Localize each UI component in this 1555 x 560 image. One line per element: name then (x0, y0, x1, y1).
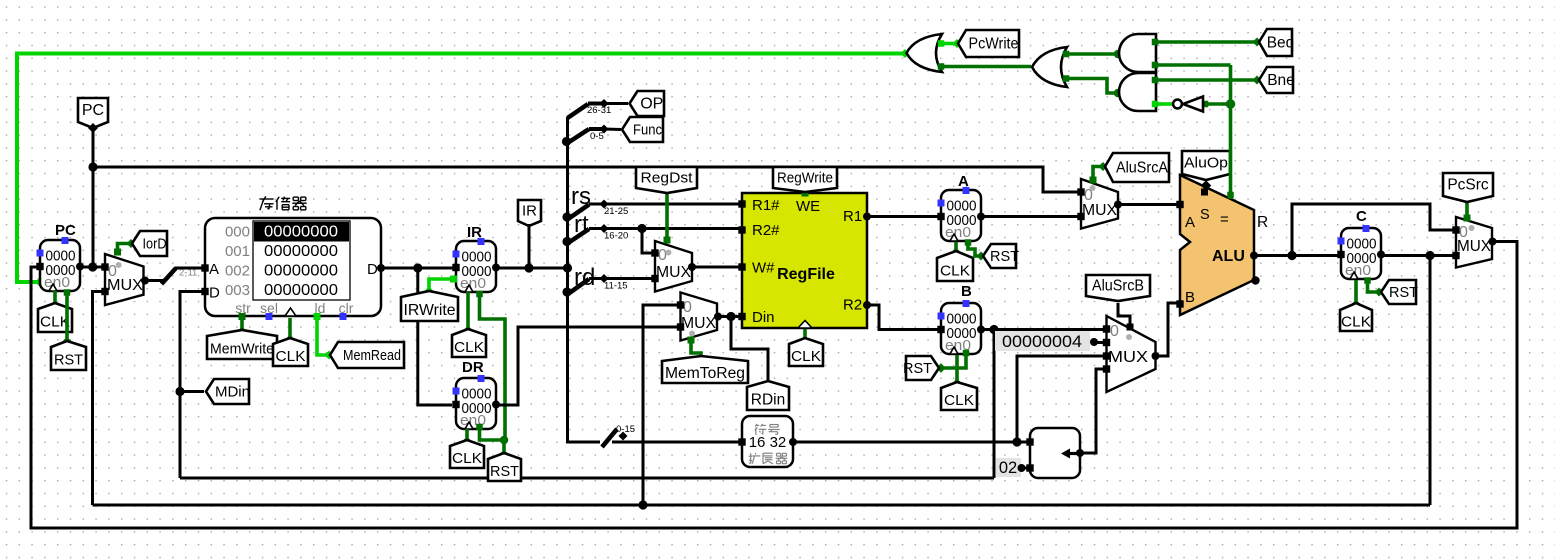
wire R to PcSrc input0 (1292, 204, 1453, 256)
svg-text:PC: PC (55, 222, 76, 239)
wire PcWrite-enable net (bright green) from OR gate to PC enable (17, 49, 910, 286)
svg-text:AluOp: AluOp (1184, 155, 1228, 172)
tunnel MemWrite (207, 330, 277, 359)
svg-text:IorD: IorD (143, 236, 167, 253)
tunnel IorD (132, 231, 167, 256)
svg-text:en0: en0 (44, 275, 70, 291)
wire C output to PcSrc input1 (1381, 254, 1453, 257)
node junction PC output (88, 262, 97, 271)
svg-text:PC: PC (82, 102, 104, 119)
svg-text:RST: RST (990, 248, 1019, 265)
node junction IR tunnel (524, 263, 533, 272)
svg-text:B: B (1185, 289, 1195, 306)
svg-text:WE: WE (796, 198, 820, 215)
svg-text:RST: RST (1389, 284, 1418, 301)
register DR (452, 359, 500, 429)
label rt (574, 211, 589, 238)
wire AluSrcA output to ALU A (1118, 203, 1178, 206)
svg-text:CLK: CLK (454, 339, 484, 356)
splitter OP bits 26-31 (568, 99, 629, 118)
label rd (574, 264, 595, 291)
wire PcWrite tunnel to OR input (bright green) (938, 39, 962, 48)
wire extender output (immediate) (793, 441, 1028, 444)
wire IR reset elbow (green) (476, 291, 505, 440)
tunnel PC (top) (78, 98, 108, 133)
wire DR reset elbow (green) (476, 424, 504, 440)
node junction B to memory-write bus (989, 325, 998, 334)
splitter Func bits 0-5 (568, 125, 622, 144)
ALU (1176, 175, 1259, 315)
svg-text:A: A (958, 173, 969, 190)
tunnel AluSrcB (1086, 275, 1150, 301)
tunnel RegWrite (773, 167, 837, 192)
wire ALUout feedback bus (y=505) (93, 504, 1431, 507)
wire C clock stem (green) (1352, 280, 1361, 309)
node junction MDin tap (175, 387, 184, 396)
wire B reset elbow (green) (936, 350, 969, 373)
wire constant 02 to shifter (1022, 467, 1029, 470)
node junction rd branch (562, 287, 571, 296)
IC shift-left-2 (1026, 428, 1084, 478)
IC sign extender 符号16-32扩展器 (738, 416, 797, 467)
tunnel CLK (RegFile) (789, 338, 823, 366)
mux RegDst (651, 241, 696, 292)
svg-text:R1: R1 (843, 208, 862, 225)
svg-text:MUX: MUX (107, 277, 144, 294)
svg-text:MemRead: MemRead (343, 347, 401, 364)
register A (937, 173, 985, 241)
svg-text:RegDst: RegDst (641, 170, 694, 187)
tunnel PcSrc (1443, 173, 1493, 202)
mux IorD (101, 254, 149, 305)
svg-text:0: 0 (658, 247, 667, 264)
splitter rt bits 16-20 (568, 224, 740, 243)
wire rt to RegDst MUX (642, 229, 652, 254)
svg-text:R1#: R1# (752, 197, 780, 214)
mux MemToReg (677, 293, 722, 341)
svg-text:RDin: RDin (751, 391, 785, 408)
svg-text:02: 02 (999, 459, 1017, 477)
svg-text:MUX: MUX (1082, 202, 1118, 219)
wire A clock stem (green) (952, 242, 961, 257)
tunnel MemRead (330, 342, 404, 368)
wire PcSrc MUX output feedback bus to PC input (31, 242, 1517, 529)
svg-text:=: = (1220, 211, 1229, 228)
wire memory str from MemWrite (green) (238, 318, 247, 336)
tunnel CLK (IR) (452, 329, 486, 357)
node junction rs branch (562, 212, 571, 221)
node junction rt branch (562, 237, 571, 246)
svg-text:26-31: 26-31 (587, 105, 611, 116)
tunnel AluOp (1182, 151, 1230, 180)
svg-text:0-5: 0-5 (590, 131, 604, 142)
register PC (36, 222, 84, 291)
wire IorD MUX input1 from ALUout bus (93, 292, 103, 506)
wire instruction distribution bus (vertical) (568, 117, 601, 442)
svg-text:A: A (1185, 214, 1195, 231)
wire AluSrcB select (1118, 303, 1134, 331)
svg-text:001: 001 (225, 243, 250, 260)
svg-text:RegFile: RegFile (777, 266, 835, 283)
svg-text:AluSrcB: AluSrcB (1092, 278, 1144, 295)
tunnel Func (622, 117, 663, 142)
node junction ALUout feedback (1425, 251, 1434, 260)
tunnel CLK (B) (941, 382, 977, 410)
register B (937, 283, 985, 354)
tunnel Beq (1259, 29, 1294, 56)
tunnel RST (C) (1381, 280, 1418, 304)
wire PcSrc select (green) (1464, 200, 1471, 222)
wire PC value bus to AluSrcA MUX input 0 (93, 167, 1079, 192)
register C (1337, 208, 1385, 279)
label 存储器 (memory title) (259, 196, 306, 210)
node junction rt to RegDst (637, 224, 646, 233)
or-gate U2 (branch taken, left-facing) (1032, 47, 1067, 87)
svg-text:000: 000 (225, 224, 250, 241)
wire reset net to RST (green) (500, 440, 509, 459)
mux AluSrcA (1077, 179, 1122, 229)
svg-text:ALU: ALU (1212, 248, 1245, 265)
label 符号 (extender row1) (755, 424, 780, 435)
svg-text:00000000: 00000000 (264, 263, 338, 280)
wire ALU result to C register (1254, 254, 1339, 257)
node junction IR bus / vertical (563, 263, 572, 272)
wire RegDst select (green) (664, 193, 671, 244)
svg-text:OP: OP (640, 96, 663, 113)
svg-text:IRWrite: IRWrite (404, 302, 456, 319)
wire memory clk (green) (286, 318, 295, 344)
svg-text:CLK: CLK (276, 348, 306, 365)
memory RAM 存储器 (201, 218, 385, 320)
tunnel CLK (C) (1340, 303, 1372, 331)
wire OR2 output to OR1 input (green) (938, 63, 1031, 70)
IC RegFile (738, 193, 871, 328)
svg-text:en0: en0 (945, 225, 971, 241)
label 16 32 (extender row2) (749, 434, 787, 451)
tunnel IR (bus label) (518, 200, 541, 226)
svg-text:CLK: CLK (791, 348, 821, 365)
or-gate U1 (PcWrite enable, left-facing) (907, 34, 943, 72)
node junction ALUout bus to MemToReg (638, 500, 647, 509)
svg-text:R: R (1257, 214, 1268, 231)
wire PC clock stem (green) (51, 291, 60, 309)
wire MemToReg output to Din (717, 315, 740, 318)
wire RDin branch (731, 317, 768, 384)
svg-text:AluSrcA: AluSrcA (1116, 160, 1169, 177)
svg-text:PcWrite: PcWrite (969, 36, 1019, 53)
wire AND2 output to OR2 input elbow (green) (1063, 75, 1123, 97)
wire AluSrcB output to ALU B (1156, 303, 1179, 356)
svg-text:S: S (1200, 207, 1210, 223)
svg-text:MUX: MUX (1457, 238, 1492, 255)
wire ALUout down to feedback bus (1429, 256, 1432, 506)
node junction DR branch (413, 263, 422, 272)
wire AluSrcA select (green) (1090, 162, 1108, 184)
svg-text:0-15: 0-15 (616, 424, 635, 435)
node junction R branch up (1287, 251, 1296, 260)
wire shifter output to AluSrcB input3 (1080, 369, 1104, 453)
node junction zero flag (green) (1226, 99, 1236, 109)
svg-text:16-20: 16-20 (604, 231, 628, 242)
svg-text:MemToReg: MemToReg (665, 365, 745, 382)
wire NOT output to AND2 (bright green) (1152, 101, 1172, 108)
node junction Din / RDin (726, 312, 735, 321)
svg-text:IR: IR (522, 203, 537, 220)
wire IR output bus (494, 267, 568, 270)
wire IorD select (green) (114, 239, 136, 256)
svg-text:PcSrc: PcSrc (1447, 177, 1489, 194)
tunnel CLK (A) (937, 251, 973, 281)
svg-text:A: A (209, 261, 219, 278)
svg-text:11-15: 11-15 (604, 281, 628, 292)
svg-text:D: D (209, 285, 220, 302)
svg-text:RegWrite: RegWrite (777, 170, 833, 187)
svg-text:CLK: CLK (1341, 313, 1371, 330)
wire IR tunnel stem (528, 224, 531, 268)
wire C reset elbow (green) (1364, 277, 1383, 296)
register IR (452, 224, 500, 292)
tunnel MemToReg (662, 356, 748, 383)
label rs (571, 183, 591, 210)
tunnel RDin (747, 381, 789, 410)
wire memory data output to IR (381, 267, 453, 270)
wire constant 4 to AluSrcB input1 (1093, 341, 1104, 344)
tunnel IRWrite (401, 291, 458, 321)
wire DR clock stem (green) (463, 429, 472, 446)
wire ALUout bus to MemToReg input0 (643, 305, 678, 505)
svg-text:RST: RST (490, 463, 519, 480)
wire PC reset stem (green) (62, 289, 72, 346)
wire IorD MUX output (144, 279, 164, 282)
wire RegFile WE from RegWrite (green) (802, 190, 809, 197)
wire Bne tunnel to AND2 (green) (1152, 76, 1262, 85)
svg-text:C: C (1356, 208, 1367, 225)
tunnel RST (IR/DR) (488, 453, 521, 481)
node junction Func branch (562, 137, 571, 146)
wire PC Q output (80, 266, 102, 269)
svg-text:0: 0 (683, 299, 692, 316)
wire A reset elbow (green) (965, 239, 986, 260)
constant 02 (996, 458, 1026, 477)
svg-text:Bne: Bne (1267, 72, 1295, 89)
tunnel RegDst (636, 167, 697, 193)
wire AND1 output to OR2 input (green) (1063, 50, 1123, 59)
wire memory write-data bus (B to memory D, y=478) (180, 477, 994, 480)
wire zero flag net (green) (1152, 62, 1234, 199)
svg-text:Beq: Beq (1267, 35, 1295, 52)
svg-text:00000004: 00000004 (1002, 333, 1082, 351)
svg-text:MUX: MUX (1108, 349, 1149, 366)
and-gate U4 (Bne & not-zero, left-facing) (1119, 73, 1156, 111)
svg-text:16 32: 16 32 (749, 434, 787, 451)
svg-text:RST: RST (54, 351, 83, 368)
wire A output to AluSrcA input1 (981, 215, 1079, 218)
wire immediate up to AluSrcB input2 (1017, 356, 1104, 442)
svg-text:00000000: 00000000 (264, 243, 338, 260)
svg-text:00000000: 00000000 (264, 282, 338, 299)
svg-text:CLK: CLK (944, 392, 974, 409)
splitter rs bits 21-25 (568, 200, 740, 220)
wire B output to AluSrcB input0 (981, 328, 1104, 331)
wire memory D write-data input (180, 292, 203, 479)
wire MDin stub (180, 390, 204, 393)
tunnel MDin (206, 379, 250, 404)
svg-text:MDin: MDin (215, 384, 250, 401)
wire RegFile clock stem (green) (801, 329, 810, 345)
node junction immediate to AluSrcB (1012, 437, 1021, 446)
svg-text:DR: DR (462, 359, 484, 376)
svg-text:MemWrite: MemWrite (210, 340, 274, 357)
wire Beq tunnel to AND1 (green) (1152, 38, 1262, 47)
svg-text:002: 002 (225, 263, 250, 280)
wire B down to write-data bus (993, 330, 996, 479)
tunnel RST (PC) (51, 341, 86, 370)
svg-text:D: D (367, 261, 378, 278)
wire AluOp to ALU S pin (1201, 180, 1211, 195)
splitter immediate bits 0-15 (602, 424, 740, 447)
node junction PC bus / y167 (88, 162, 97, 171)
tunnel OP (630, 91, 665, 116)
label R (ALU result) (1257, 214, 1268, 231)
svg-text:W#: W# (752, 260, 775, 277)
svg-text:Func: Func (633, 122, 662, 139)
svg-text:IR: IR (467, 224, 482, 241)
svg-text:MUX: MUX (656, 264, 692, 281)
not-gate U5 (left-facing) (1173, 97, 1203, 112)
wire PC enable stub (bright green) (0, 0, 1, 1)
mux PcSrc (1452, 217, 1496, 268)
wire RegDst output to W# (692, 266, 740, 269)
tunnel Bne (1259, 67, 1295, 93)
tunnel AluSrcA (1105, 153, 1169, 182)
svg-text:00000000: 00000000 (264, 224, 338, 241)
wire zero to NOT input (green) (1202, 101, 1231, 108)
svg-text:003: 003 (225, 282, 250, 299)
svg-text:MUX: MUX (681, 315, 717, 332)
label 扩展器 (extender row3) (749, 453, 788, 464)
svg-text:en0: en0 (1345, 263, 1371, 279)
tunnel CLK (memory) (273, 338, 308, 366)
wire PC tunnel stem (92, 128, 95, 267)
svg-text:B: B (961, 283, 972, 300)
tunnel RST (B) (903, 356, 939, 380)
svg-text:RST: RST (903, 360, 932, 377)
wire RegFile R1 to A register (867, 215, 939, 218)
wire DR output to MemToReg (496, 327, 678, 405)
constant 00000004 (995, 331, 1098, 351)
svg-text:0: 0 (1110, 323, 1119, 340)
mux AluSrcB (1103, 316, 1160, 392)
wire branch to DR input (418, 268, 452, 405)
svg-text:CLK: CLK (940, 262, 970, 279)
tunnel PcWrite (958, 30, 1019, 57)
wire B clock stem (green) (953, 355, 962, 388)
splitter rd bits 11-15 (568, 274, 652, 294)
svg-text:Din: Din (752, 309, 775, 326)
wire IR clock stem (green) (464, 292, 473, 335)
wire MemToReg select (green) (688, 337, 702, 359)
svg-text:CLK: CLK (452, 450, 482, 467)
tunnel CLK (PC) (38, 303, 72, 332)
node junction reset net (green) (500, 436, 509, 445)
svg-text:en0: en0 (460, 276, 486, 292)
svg-text:21-25: 21-25 (604, 206, 628, 217)
wire IR enable from IRWrite (bright green) (425, 276, 458, 296)
wire memory ld from MemRead (bright green) (317, 318, 334, 360)
svg-text:R2: R2 (843, 297, 862, 314)
and-gate U3 (Beq & zero, left-facing) (1119, 34, 1156, 72)
splitter 2-11 (memory address) (162, 268, 203, 285)
svg-text:R2#: R2# (752, 222, 780, 239)
tunnel CLK (DR) (450, 440, 484, 468)
tunnel RST (A) (983, 244, 1019, 268)
wire RegFile R2 to B register (867, 305, 939, 330)
